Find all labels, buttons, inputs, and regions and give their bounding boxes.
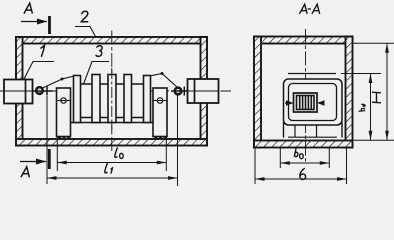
section crate right wall (346, 37, 353, 148)
right pedestal bolt (157, 98, 162, 103)
crate top wall hatched (16, 37, 207, 44)
centerline ticks crossing walls (111, 37, 113, 45)
section marker top: cut bar (48, 16, 51, 34)
dimension B (255, 148, 347, 184)
crate bottom wall hatched (16, 139, 207, 146)
dimension h_d (341, 74, 381, 141)
dimension b0 (280, 148, 329, 168)
callout 3 leader (84, 62, 110, 85)
dimension l1 (47, 95, 178, 187)
vertical centerline over discs (111, 68, 113, 130)
section marker top: arrow (21, 21, 47, 23)
section crate bottom wall (254, 141, 353, 148)
label B (300, 168, 306, 179)
section vertical centerline (305, 29, 307, 163)
left pedestal bolt (61, 98, 66, 103)
rotor disc 1 (74, 76, 81, 123)
left tie wire (43, 76, 74, 88)
item side skirts (283, 122, 285, 138)
base line under rotor (61, 122, 166, 124)
label h_d (rotated) (359, 104, 366, 111)
vertical centerline of machine (111, 31, 113, 152)
transducer grid element (297, 96, 315, 110)
section marker top: letter A (24, 3, 33, 14)
section crate top wall (254, 37, 353, 44)
left pedestal (57, 88, 71, 137)
section title A-A (299, 4, 319, 14)
rotor disc 4 (124, 75, 132, 123)
section crate left wall (254, 37, 261, 148)
left block flange divider (25, 80, 27, 104)
shaft drum between discs (76, 84, 146, 118)
section marker bottom: cut bar (48, 149, 51, 169)
item inner housing (289, 84, 337, 121)
callout 1 (41, 45, 45, 57)
right pedestal (153, 88, 167, 137)
item outer housing (284, 79, 343, 125)
right drive block (188, 79, 219, 103)
crate right wall hatched (201, 37, 208, 146)
section marker bottom: letter A (21, 167, 30, 178)
right shaft stub (171, 90, 188, 92)
left drive block (4, 80, 33, 104)
item legs to base (294, 125, 296, 137)
label l1 (105, 163, 113, 174)
clamp arrow left (286, 100, 294, 106)
callout 2 (81, 11, 88, 22)
left shaft stub (33, 90, 54, 92)
section marker bottom: arrow (20, 161, 46, 163)
dimension H (353, 43, 394, 140)
section centerline ticks crossing walls (305, 36, 307, 44)
left rope loop (36, 87, 43, 94)
left pedestal feet (58, 137, 70, 140)
label H (rotated) (372, 92, 381, 103)
dimension l0 (57, 137, 166, 172)
callout 2 leader (75, 27, 96, 38)
rotor disc 3 (middle) (108, 75, 116, 123)
rotor disc 2 (92, 75, 100, 123)
right tie wire (151, 74, 178, 88)
crate left wall hatched (16, 37, 23, 146)
horizontal centerline of shaft (0, 90, 231, 92)
transducer outer frame (294, 93, 318, 112)
clamp arrow right (317, 100, 325, 106)
right pedestal feet (155, 137, 167, 140)
right block flange divider (194, 79, 196, 103)
callout 1 leader (24, 62, 54, 80)
rotor disc 5 (144, 76, 151, 123)
callout 3 (96, 46, 102, 57)
label b0 (294, 147, 303, 159)
item top slab line (288, 73, 336, 75)
label l0 (115, 147, 123, 158)
right rope loop (175, 88, 182, 95)
